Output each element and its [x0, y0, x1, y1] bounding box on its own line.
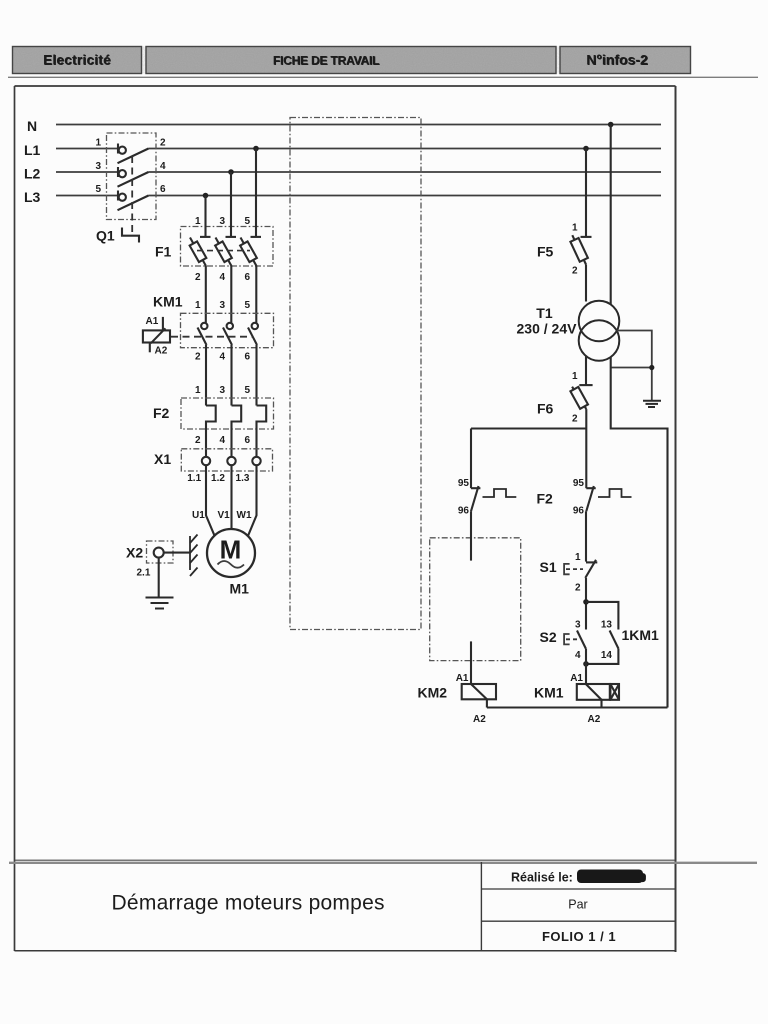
svg-text:A2: A2	[155, 346, 168, 357]
svg-text:KM1: KM1	[153, 294, 183, 310]
svg-text:95: 95	[458, 478, 470, 489]
svg-text:1: 1	[95, 138, 101, 149]
svg-text:1: 1	[195, 216, 201, 227]
svg-text:L3: L3	[24, 189, 41, 205]
svg-text:FOLIO 1 / 1: FOLIO 1 / 1	[542, 929, 616, 944]
svg-text:A2: A2	[473, 714, 486, 725]
svg-text:96: 96	[573, 506, 585, 517]
svg-text:14: 14	[601, 650, 613, 661]
svg-text:F2: F2	[537, 491, 554, 507]
svg-text:A1: A1	[146, 316, 159, 327]
svg-text:5: 5	[244, 300, 250, 311]
svg-text:FICHE DE TRAVAIL: FICHE DE TRAVAIL	[273, 54, 379, 68]
svg-text:3: 3	[575, 620, 581, 631]
svg-text:1.2: 1.2	[211, 473, 225, 484]
svg-text:95: 95	[573, 478, 585, 489]
svg-text:W1: W1	[237, 510, 252, 521]
svg-text:A1: A1	[570, 673, 583, 684]
svg-text:Démarrage moteurs pompes: Démarrage moteurs pompes	[112, 892, 385, 915]
svg-text:L1: L1	[24, 142, 41, 158]
svg-text:230 / 24V: 230 / 24V	[517, 321, 578, 337]
svg-text:4: 4	[575, 650, 581, 661]
svg-text:1: 1	[572, 371, 578, 382]
svg-text:Electricité: Electricité	[43, 53, 111, 68]
svg-text:2: 2	[195, 272, 201, 283]
svg-text:96: 96	[458, 506, 470, 517]
svg-text:3: 3	[219, 216, 225, 227]
svg-text:F2: F2	[153, 405, 170, 421]
svg-text:2: 2	[572, 266, 578, 277]
svg-text:F5: F5	[537, 244, 554, 260]
svg-text:T1: T1	[536, 305, 553, 321]
svg-text:4: 4	[219, 272, 225, 283]
svg-text:Q1: Q1	[96, 228, 115, 244]
svg-text:6: 6	[244, 352, 250, 363]
svg-text:3: 3	[219, 385, 225, 396]
svg-text:2: 2	[195, 435, 201, 446]
svg-text:4: 4	[160, 161, 166, 172]
svg-text:2: 2	[160, 138, 166, 149]
svg-text:A1: A1	[456, 673, 469, 684]
svg-text:5: 5	[244, 385, 250, 396]
svg-text:S2: S2	[540, 629, 557, 645]
svg-text:6: 6	[160, 184, 166, 195]
svg-text:2: 2	[195, 352, 201, 363]
svg-text:1: 1	[195, 300, 201, 311]
svg-text:13: 13	[601, 620, 613, 631]
svg-text:5: 5	[95, 184, 101, 195]
svg-text:M1: M1	[230, 581, 250, 597]
svg-text:4: 4	[219, 352, 225, 363]
svg-text:N°infos-2: N°infos-2	[586, 52, 648, 68]
svg-text:N: N	[27, 118, 37, 134]
svg-text:U1: U1	[192, 510, 205, 521]
svg-text:F6: F6	[537, 401, 554, 417]
svg-text:X1: X1	[154, 451, 171, 467]
svg-text:M: M	[220, 535, 242, 565]
svg-text:S1: S1	[540, 559, 557, 575]
svg-text:4: 4	[219, 435, 225, 446]
svg-text:A2: A2	[588, 714, 601, 725]
svg-text:1.3: 1.3	[236, 473, 250, 484]
svg-text:1: 1	[575, 552, 581, 563]
svg-text:2.1: 2.1	[137, 568, 151, 579]
svg-text:1.1: 1.1	[187, 473, 201, 484]
svg-text:KM1: KM1	[534, 685, 564, 701]
svg-text:3: 3	[219, 300, 225, 311]
svg-text:3: 3	[95, 161, 101, 172]
svg-text:Réalisé le:: Réalisé le:	[511, 871, 573, 885]
svg-text:6: 6	[244, 272, 250, 283]
svg-text:1: 1	[195, 385, 201, 396]
svg-text:6: 6	[244, 435, 250, 446]
svg-text:F1: F1	[155, 244, 172, 260]
svg-text:V1: V1	[218, 510, 231, 521]
svg-text:X2: X2	[126, 545, 143, 561]
svg-text:Par: Par	[568, 898, 587, 912]
svg-text:KM2: KM2	[418, 685, 448, 701]
svg-text:1KM1: 1KM1	[622, 627, 660, 643]
svg-text:2: 2	[575, 583, 581, 594]
svg-text:1: 1	[572, 223, 578, 234]
svg-text:2: 2	[572, 414, 578, 425]
svg-text:5: 5	[244, 216, 250, 227]
svg-text:L2: L2	[24, 166, 41, 182]
